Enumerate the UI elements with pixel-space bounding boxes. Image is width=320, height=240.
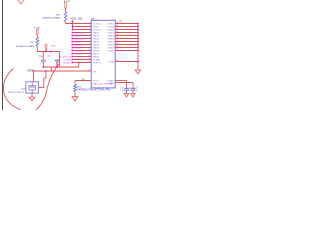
svg-text:VDD_IN5: VDD_IN5 [70,16,82,20]
svg-text:PA005: PA005 [93,32,100,35]
svg-text:33: 33 [116,60,118,62]
svg-text:VSSD6: VSSD6 [107,39,115,41]
svg-text:VSSD4: VSSD4 [107,33,115,35]
svg-text:P_AD04: P_AD04 [73,34,82,37]
svg-text:PBMCU4TR_BOTTOM_PAD: PBMCU4TR_BOTTOM_PAD [80,89,111,92]
svg-text:VSSD7: VSSD7 [107,42,115,44]
svg-text:2.2u: 2.2u [134,90,138,92]
svg-text:MIC/S P1.5L/T0: MIC/S P1.5L/T0 [8,92,24,94]
svg-text:VSSD2: VSSD2 [107,27,115,29]
svg-text:PA015: PA015 [93,35,100,38]
svg-text:15: 15 [89,70,91,72]
svg-text:PA035: PA035 [93,41,100,44]
svg-text:VSSIO: VSSIO [108,51,115,53]
svg-text:VDDA_5: VDDA_5 [63,61,72,64]
svg-text:PA075: PA075 [93,53,100,56]
svg-text:100n: 100n [47,56,51,58]
svg-text:XOUT: XOUT [93,80,100,82]
svg-text:P_SCK5_X: P_SCK5_X [73,50,84,52]
svg-text:PA025: PA025 [93,38,100,41]
svg-text:2.2u: 2.2u [120,90,124,92]
svg-text:P_AD02: P_AD02 [73,40,82,43]
svg-text:VREF+5: VREF+5 [93,63,102,65]
svg-text:VSSD8: VSSD8 [107,45,115,47]
svg-text:VCAP2: VCAP2 [107,82,115,85]
svg-text:VSSD9: VSSD9 [107,48,115,50]
svg-text:VSSD1: VSSD1 [107,24,115,26]
svg-text:VD15: VD15 [51,46,57,48]
svg-text:ACMR25 (20MAX): ACMR25 (20MAX) [42,16,60,19]
svg-text:PA065: PA065 [93,50,100,53]
svg-text:VDDIO3: VDDIO3 [93,30,102,32]
svg-text:VDDIO1: VDDIO1 [93,24,102,26]
svg-text:PA085: PA085 [93,56,100,59]
svg-text:VDD2: VDD2 [93,27,100,29]
svg-text:VSSD3: VSSD3 [107,30,115,32]
svg-text:P_INT5_X2: P_INT5_X2 [60,56,72,58]
svg-text:2.2u: 2.2u [128,90,132,92]
svg-text:XIN: XIN [93,71,97,73]
svg-text:P_AD05_X: P_AD05_X [73,31,84,34]
svg-text:P_SDA5: P_SDA5 [73,52,82,55]
svg-text:P_AD03_X2: P_AD03_X2 [73,37,85,40]
svg-text:ACMR25 (20MAX): ACMR25 (20MAX) [16,45,34,48]
svg-text:PA045: PA045 [93,44,100,47]
svg-text:0R: 0R [77,89,80,91]
svg-text:P_AD01_X: P_AD01_X [73,43,84,46]
svg-text:VSSD5: VSSD5 [107,36,115,38]
svg-text:P_RST5: P_RST5 [63,59,72,61]
svg-text:VDDA5: VDDA5 [93,59,101,62]
svg-text:U5: U5 [91,17,95,21]
svg-text:PA055: PA055 [93,47,100,50]
svg-text:VSSA: VSSA [108,61,114,64]
svg-text:P_AD00: P_AD00 [73,46,82,49]
